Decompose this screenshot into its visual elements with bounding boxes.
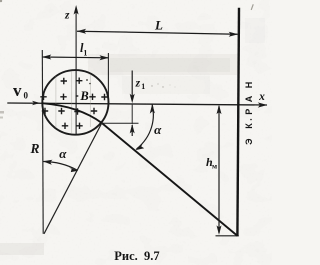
svg-text:R: R xyxy=(29,141,39,156)
svg-text:А: А xyxy=(244,95,254,102)
svg-text:z: z xyxy=(64,9,70,21)
z1 down arrowhead xyxy=(130,94,135,104)
h_m top arrowhead xyxy=(217,105,222,115)
plus row4 xyxy=(62,123,68,129)
z-axis arrowhead xyxy=(74,5,79,15)
exit arc arrowhead bottom xyxy=(135,144,144,151)
dimension L line xyxy=(77,31,238,34)
label ekran (vertical) xyxy=(244,82,254,145)
dimension l1 line xyxy=(42,56,108,59)
faint column lines in circle xyxy=(56,72,90,134)
h_m dimension line xyxy=(218,106,220,233)
svg-text:v: v xyxy=(13,81,22,100)
arc arrowhead left xyxy=(43,160,53,165)
svg-text:м: м xyxy=(212,161,217,170)
plus signs (field into page markers) xyxy=(40,78,107,130)
svg-text:1: 1 xyxy=(141,82,145,91)
l1 left arrowhead xyxy=(42,55,52,60)
trajectory straight line to screen xyxy=(102,123,238,236)
trajectory curve inside field xyxy=(42,103,102,123)
svg-text:0: 0 xyxy=(24,91,29,101)
svg-text:К: К xyxy=(244,123,254,129)
z1 lower arrow xyxy=(131,125,133,136)
h_m bottom arrowhead xyxy=(217,225,222,235)
L left arrowhead xyxy=(77,29,87,34)
plus row1 xyxy=(61,78,67,84)
svg-text:Рис. 9.7: Рис. 9.7 xyxy=(114,249,159,263)
base line at screen bottom xyxy=(216,235,239,237)
svg-text:x: x xyxy=(258,91,265,103)
svg-text:1: 1 xyxy=(83,49,87,58)
x-axis xyxy=(7,103,267,105)
arc arrowhead right xyxy=(69,167,78,172)
svg-text:Э: Э xyxy=(244,138,254,145)
svg-text:Р: Р xyxy=(244,109,254,115)
alpha arc bottom-left xyxy=(43,162,77,171)
R radius line to exit point xyxy=(44,123,102,234)
z1 dimension upper line xyxy=(131,71,133,97)
left edge smudges xyxy=(0,111,4,114)
v0 arrowhead at circle entry xyxy=(32,101,40,105)
z1 line through axis to level line (thin) xyxy=(131,104,133,124)
left vertical line (l1 extension / R radius vertical) xyxy=(41,50,44,234)
ink dots in circle xyxy=(86,79,88,81)
z-axis xyxy=(75,11,77,134)
svg-text:z: z xyxy=(135,78,141,90)
svg-text:Н: Н xyxy=(244,82,254,89)
screen (thick vertical line) xyxy=(237,8,239,236)
scan speckles xyxy=(0,0,254,88)
plus row3 xyxy=(42,108,48,114)
field circle xyxy=(42,70,108,135)
L right arrowhead xyxy=(229,32,239,37)
l1 right arrowhead xyxy=(100,55,110,60)
scan shading band xyxy=(88,54,238,75)
exit level line xyxy=(102,122,138,124)
svg-text:α: α xyxy=(59,146,67,161)
dot after K xyxy=(250,119,252,121)
exit arc arrowhead top xyxy=(150,104,155,114)
x-axis end arrowhead xyxy=(258,102,268,107)
l1 right extension line xyxy=(107,53,109,104)
svg-text:L: L xyxy=(154,18,163,33)
svg-text:B: B xyxy=(79,89,88,103)
svg-text:α: α xyxy=(154,122,162,137)
plus row2 xyxy=(40,94,46,100)
alpha arc at exit xyxy=(137,105,154,150)
